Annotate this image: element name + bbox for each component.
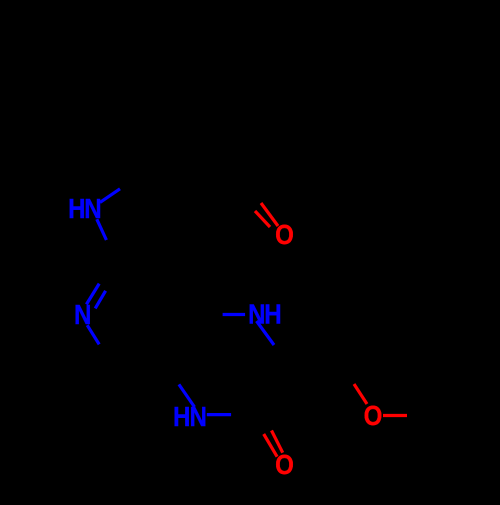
bond N1(pyrrole NH)-C7a upper half (blue)	[100, 189, 120, 203]
bond N7=C7a double bond inner line half (blue)	[95, 291, 105, 309]
ether O-CH2 half (red)	[354, 384, 367, 404]
svg-text:O: O	[275, 451, 294, 481]
bond N1'(amide HN)-C2 carbonyl horizontal half (blue)	[207, 413, 231, 416]
bond N4(NH)-C4a horizontal half (blue)	[223, 313, 246, 316]
svg-text:HN: HN	[173, 402, 206, 432]
amide C=O double bond line 1 half (red)	[264, 434, 277, 457]
bond N7-C6 half (blue)	[87, 325, 99, 344]
ketone C=O double bond line 1 half (red)	[261, 203, 278, 226]
svg-text:HN: HN	[68, 194, 100, 224]
svg-text:O: O	[364, 402, 383, 432]
svg-text:NH: NH	[248, 300, 280, 330]
svg-text:N: N	[74, 300, 91, 330]
bond N1(pyrrole NH)-C2 half (blue)	[97, 219, 107, 240]
bond N1'(amide HN)-C8a half (blue)	[179, 384, 195, 407]
ether O-CH3 horizontal half (red)	[383, 414, 407, 417]
bond N7=C7a double bond main line half (blue)	[86, 284, 99, 305]
bond N4(NH)-C3 half (blue)	[257, 321, 275, 345]
svg-text:O: O	[275, 221, 294, 251]
amide C=O double bond line 2 half (red)	[272, 431, 283, 453]
ketone C=O double bond line 2 half (red)	[255, 211, 270, 227]
